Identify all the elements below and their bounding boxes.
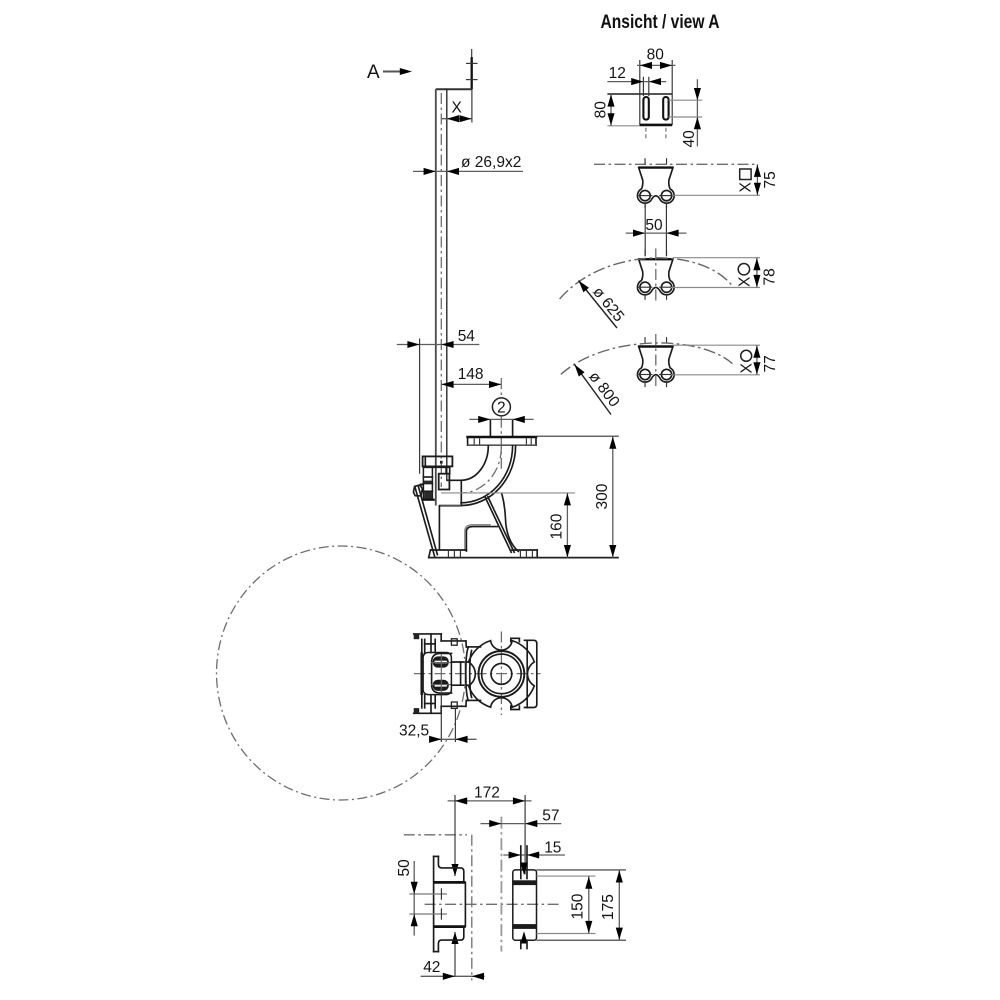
surface mark circle-X 3 xyxy=(738,350,755,373)
dim 160 xyxy=(441,493,575,558)
dim 300 xyxy=(537,436,619,557)
svg-text:78: 78 xyxy=(762,268,779,285)
section centerline xyxy=(594,163,758,165)
dim X xyxy=(442,89,472,122)
svg-text:32,5: 32,5 xyxy=(399,723,429,740)
svg-text:80: 80 xyxy=(593,101,610,119)
svg-text:X: X xyxy=(736,276,753,287)
svg-text:ø 26,9x2: ø 26,9x2 xyxy=(461,154,521,171)
claw section 3 xyxy=(637,337,674,387)
svg-text:X: X xyxy=(738,363,755,374)
lantern bell curves xyxy=(466,641,481,706)
top view horizontal centerline xyxy=(414,673,541,675)
adapter section xyxy=(451,661,468,687)
svg-text:54: 54 xyxy=(458,328,476,345)
svg-text:300: 300 xyxy=(594,483,611,509)
svg-text:150: 150 xyxy=(570,893,587,919)
arc diameter 625 xyxy=(560,258,732,299)
support strut diagonals xyxy=(485,497,514,553)
svg-text:X: X xyxy=(738,182,755,193)
arc diameter 800 xyxy=(561,343,733,374)
bolt top xyxy=(433,656,449,667)
svg-text:57: 57 xyxy=(542,807,559,824)
svg-text:160: 160 xyxy=(549,513,566,539)
bolt centerline cross xyxy=(431,655,451,693)
wall bracket side outline xyxy=(434,856,466,951)
stub end dim arrows xyxy=(469,416,533,423)
elbow inner curve xyxy=(461,446,488,481)
view direction label A xyxy=(367,62,412,83)
flange axis gray line xyxy=(500,817,502,952)
flange axis centerline xyxy=(500,378,502,470)
motor vertical centerline xyxy=(500,632,502,716)
dim 77 xyxy=(671,345,779,375)
flange clamp bands xyxy=(513,880,537,929)
clamp arrows top and bottom xyxy=(520,863,527,949)
elbow weld seam xyxy=(460,480,462,505)
bolt slot outline xyxy=(432,653,452,693)
motor petals xyxy=(469,641,535,708)
dim 57 xyxy=(481,807,562,827)
pipe flange front outline xyxy=(513,870,537,940)
elbow axis vertical centerline xyxy=(471,835,473,981)
elbow outer wall curve xyxy=(461,446,516,506)
terminal box xyxy=(525,640,537,707)
dim 78 xyxy=(671,258,779,288)
base line xyxy=(428,557,619,559)
elbow inner wall curve xyxy=(461,446,512,503)
right foot xyxy=(512,550,537,558)
center tabs top and bottom xyxy=(451,639,457,709)
svg-text:12: 12 xyxy=(609,65,626,82)
dim 32,5 xyxy=(399,695,477,743)
svg-text:77: 77 xyxy=(762,355,779,372)
item balloon 2 xyxy=(492,398,510,416)
svg-text:X: X xyxy=(452,100,463,117)
claw section 2 xyxy=(637,250,674,300)
motor shaft circle xyxy=(491,664,512,685)
discharge flange xyxy=(468,437,536,445)
wall plate top edge xyxy=(607,93,672,95)
dim 40 right xyxy=(669,79,703,147)
centerline across bottom views xyxy=(425,903,562,905)
dim 50 under claw1 xyxy=(626,203,687,257)
pump body top outline xyxy=(414,634,466,713)
bracket plate edge-on thick xyxy=(420,653,423,695)
petal notch tabs xyxy=(511,638,520,709)
dim 42 xyxy=(421,959,485,980)
svg-text:80: 80 xyxy=(647,47,665,64)
dim 75 xyxy=(672,164,779,195)
motor fan cover circle xyxy=(479,651,525,697)
pipe clamp left arm xyxy=(420,467,435,499)
centerline top xyxy=(404,834,467,836)
claw2 axis centerline xyxy=(655,249,657,302)
svg-text:42: 42 xyxy=(423,959,440,976)
svg-text:75: 75 xyxy=(762,171,779,188)
wall plate xyxy=(607,60,672,126)
bolt axis extension with arrows xyxy=(451,795,458,976)
elbow centerline arc xyxy=(462,448,501,494)
pipe top hook xyxy=(436,49,478,89)
pipe plate edge lines xyxy=(521,846,527,879)
suction lines xyxy=(439,480,461,549)
dim 15 xyxy=(503,840,565,859)
pipe clamp lower jaw block xyxy=(439,474,450,490)
claw3 axis centerline xyxy=(655,334,657,388)
motor mid circle xyxy=(482,654,522,694)
svg-text:ø 625: ø 625 xyxy=(589,284,627,326)
dim 150 xyxy=(537,876,596,933)
dim 54 xyxy=(397,328,480,474)
dim 175 xyxy=(537,870,627,940)
pipe centerline xyxy=(440,93,442,487)
svg-text:148: 148 xyxy=(458,366,484,383)
svg-text:40: 40 xyxy=(681,130,698,148)
left foot xyxy=(429,550,467,558)
surface mark square-X 1 xyxy=(738,169,755,193)
svg-text:50: 50 xyxy=(645,217,663,234)
dim 172 xyxy=(448,785,532,805)
label diameter 800 xyxy=(572,362,623,414)
bolt bottom xyxy=(433,680,449,691)
flange face extension with arrow xyxy=(521,795,528,875)
slot left xyxy=(643,77,648,120)
dim 50 bottom xyxy=(396,859,418,936)
pipe clamp top plate xyxy=(423,456,453,466)
flange stub pipe xyxy=(490,421,512,437)
volute arch between feet xyxy=(466,527,497,551)
surface mark circle-X 2 xyxy=(736,264,753,288)
dim 148 xyxy=(441,366,501,388)
svg-text:15: 15 xyxy=(544,840,561,857)
svg-text:50: 50 xyxy=(396,859,413,877)
bearing housing outline xyxy=(423,653,451,695)
dim 12 xyxy=(607,65,666,85)
svg-text:A: A xyxy=(367,62,380,83)
label diameter 625 xyxy=(576,278,628,328)
dim 80 top xyxy=(637,47,676,69)
volute right edge curve xyxy=(502,494,518,551)
standpipe xyxy=(436,89,447,505)
pipe sweep circle dashed xyxy=(217,546,466,800)
clamp claw tip xyxy=(413,485,422,496)
slot right xyxy=(663,97,668,120)
svg-text:175: 175 xyxy=(600,894,617,920)
dim 80 left xyxy=(593,94,615,126)
svg-text:Ansicht / view A: Ansicht / view A xyxy=(601,11,720,33)
svg-text:172: 172 xyxy=(474,785,500,802)
slot centerlines below plate xyxy=(646,128,666,140)
pipe clamp upper jaw xyxy=(423,467,449,473)
casing slant edge double line xyxy=(415,487,437,558)
bracket bolt crosses xyxy=(409,888,447,919)
svg-text:2: 2 xyxy=(497,399,506,416)
dim pipe diameter xyxy=(413,154,523,175)
claw section 1 xyxy=(637,158,674,208)
